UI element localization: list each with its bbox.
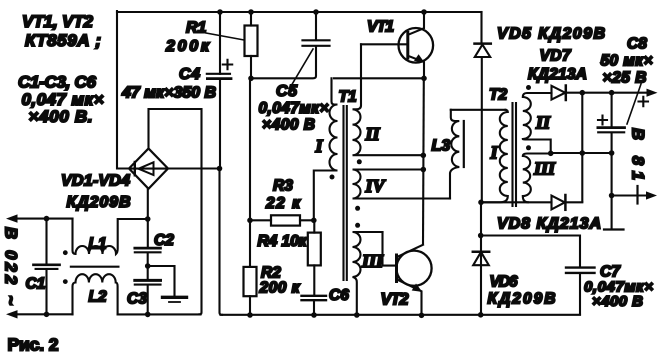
wire bridge top AC corner up over box and down to bottom rail [149, 109, 202, 314]
node VT2 emitter rail [419, 313, 425, 319]
node C6 bottom rail [311, 312, 317, 318]
svg-text:L2: L2 [89, 289, 107, 306]
node VD6 bottom rail [478, 312, 484, 318]
wire R1 column down to R3 junction and R2 [249, 78, 251, 220]
svg-text:47 мк×350 В: 47 мк×350 В [121, 85, 216, 102]
wire L3 top to T2 primary top [451, 109, 506, 111]
node C7 branch junction [478, 233, 484, 239]
capacitor C6 [302, 296, 327, 315]
T1 polarity dot winding IV [355, 206, 360, 211]
diode VD6 [473, 252, 489, 266]
node AC/C2 junction [145, 216, 151, 222]
input arrow bottom [6, 310, 18, 318]
resistor R4 [308, 220, 321, 295]
bridge rectifier VD1-VD4 diamond [129, 149, 168, 189]
svg-text:С4: С4 [179, 66, 200, 83]
resistor R3 [250, 215, 314, 225]
node top rail junction C4 [217, 9, 223, 15]
T1 winding III [353, 232, 383, 315]
T1 winding IV [353, 170, 450, 199]
capacitor C4 electrolytic [207, 12, 232, 315]
transformer T1 [314, 44, 450, 315]
svg-text:С6: С6 [329, 287, 349, 304]
node top rail junction VT1 collector [421, 9, 427, 15]
wire minus column [611, 153, 613, 229]
node C1 bottom [44, 312, 50, 318]
svg-text:III: III [361, 251, 384, 271]
wire down to R2 [249, 220, 251, 267]
output arrow minus [612, 186, 657, 204]
svg-text:С2: С2 [154, 232, 174, 249]
input arrow top [6, 214, 73, 222]
wire left vertical from top rail to bridge [117, 11, 129, 169]
svg-text:С1: С1 [26, 276, 46, 293]
label C5 with leader [276, 49, 313, 100]
node VD8 line left junction [478, 200, 484, 206]
svg-text:Т2: Т2 [489, 87, 507, 104]
node center tap [548, 151, 554, 157]
capacitor C1 [34, 219, 60, 315]
output plus sign [639, 97, 649, 106]
inductor L1 [63, 219, 148, 256]
inductor L3 [450, 110, 464, 199]
node C8 bottom junction [609, 150, 615, 156]
T2 winding II [523, 93, 552, 154]
node junction C4 bottom / bridge [217, 166, 223, 172]
capacitor C2 [135, 248, 161, 280]
wire T1 winding I top to VT1 emitter [334, 77, 424, 79]
node midpoint junction T1-IV top [421, 167, 427, 173]
T1 polarity dot winding II [357, 159, 362, 164]
node C8 top junction [609, 90, 615, 96]
node R1 bottom junction [248, 76, 254, 82]
svg-text:×400 В: ×400 В [262, 117, 315, 134]
label C8 with leader [627, 36, 647, 125]
T1 winding I [314, 78, 338, 220]
node midpoint junction T1-II bottom [421, 153, 427, 159]
wire bridge + corner to C4 column [168, 167, 220, 169]
svg-text:Рис. 2: Рис. 2 [8, 335, 59, 355]
T1 winding II [353, 44, 424, 155]
T1 polarity dot winding I [330, 175, 335, 180]
wire VD6 column [480, 202, 482, 314]
wire T1 winding IV bottom to L3 [448, 197, 451, 199]
svg-text:КД209В: КД209В [67, 194, 131, 211]
node R3 right junction [311, 218, 317, 224]
svg-text:R4 10к: R4 10к [258, 233, 308, 250]
wire bridge bottom corner to AC node [147, 189, 149, 248]
node minus output junction [609, 193, 615, 199]
T1 polarity dot winding III [355, 223, 360, 228]
svg-text:0,047мк×: 0,047мк× [259, 100, 329, 117]
svg-text:200 к: 200 к [259, 280, 301, 297]
node VD7 cathode junction [580, 90, 586, 96]
svg-text:II: II [535, 113, 551, 133]
svg-text:С8: С8 [627, 36, 647, 53]
svg-text:С1-С3, С6: С1-С3, С6 [18, 73, 97, 92]
bottom rail [13, 313, 580, 316]
inductor L2 [63, 274, 118, 314]
T2 core [513, 103, 517, 206]
transformer T2 [481, 85, 552, 206]
svg-text:С3: С3 [127, 291, 147, 308]
node C1 top [44, 216, 50, 222]
ground symbol [148, 266, 187, 302]
transistor VT2 [396, 245, 431, 315]
svg-text:III: III [533, 159, 556, 179]
svg-text:КД213А: КД213А [528, 66, 587, 83]
node T1 winding III bottom rail [354, 312, 360, 318]
wire half-bridge midpoint vertical [422, 78, 425, 244]
svg-text:VD6: VD6 [490, 274, 518, 291]
svg-text:VT1, VT2: VT1, VT2 [22, 12, 94, 31]
svg-text:22 к: 22 к [265, 195, 301, 212]
svg-text:L3: L3 [432, 138, 451, 155]
svg-text:Т1: Т1 [339, 89, 357, 106]
svg-text:R1: R1 [186, 20, 207, 37]
diode VD8 [552, 195, 566, 210]
T2 winding I primary [481, 110, 508, 203]
wire center tap line [551, 152, 612, 154]
resistor R1 [245, 12, 258, 78]
svg-text:R3: R3 [273, 178, 293, 195]
capacitor C7 [481, 236, 595, 315]
svg-text:VD7: VD7 [540, 48, 572, 65]
T2 polarity dot winding III [526, 145, 531, 150]
svg-text:IV: IV [365, 176, 387, 196]
node top rail junction R1 [248, 9, 254, 15]
T1 winding III wire to VT2 base [383, 232, 397, 266]
svg-text:VD1-VD4: VD1-VD4 [61, 173, 130, 190]
svg-text:I: I [315, 136, 324, 156]
label R1 with leader [186, 20, 244, 41]
svg-text:С5: С5 [276, 83, 298, 100]
svg-text:I: I [490, 143, 499, 163]
output arrow plus [647, 89, 658, 97]
T1 core [344, 106, 347, 280]
svg-text:VT1: VT1 [367, 19, 394, 36]
node C2/C3 junction [145, 263, 151, 269]
T2 polarity dot winding II [526, 85, 531, 90]
wire top rail +310V [117, 11, 482, 13]
minus column end bar [604, 228, 624, 230]
node top rail junction C5 [313, 9, 319, 15]
svg-text:×400 В: ×400 В [592, 293, 643, 310]
resistor R2 [244, 267, 257, 315]
capacitor C3 [135, 280, 161, 314]
wire VD8 line [481, 201, 582, 203]
diode VD5 [475, 12, 491, 202]
node R3 left junction [247, 218, 253, 224]
svg-text:VT2: VT2 [381, 291, 409, 309]
capacitor C5 [251, 12, 330, 78]
core L1/L2 [71, 266, 119, 268]
svg-text:50 мк×: 50 мк× [601, 53, 653, 70]
svg-text:L1: L1 [89, 236, 107, 253]
diode VD7 [552, 86, 649, 101]
svg-text:II: II [365, 124, 381, 144]
wire VD7 junction vertical [581, 93, 583, 202]
node R2 bottom rail [247, 312, 253, 318]
T2 winding III [523, 154, 551, 203]
node center tap line junction [580, 150, 586, 156]
svg-text:×25 В: ×25 В [603, 70, 647, 87]
capacitor C8 electrolytic [598, 93, 625, 153]
svg-text:КТ859А ;: КТ859А ; [25, 31, 101, 50]
transistor VT1 [361, 12, 433, 78]
svg-text:VD5 КД209В: VD5 КД209В [497, 26, 605, 43]
node VT1 emitter junction [421, 76, 427, 82]
svg-text:VD8 КД213А: VD8 КД213А [497, 216, 601, 233]
node C3 bottom rail [145, 312, 151, 318]
svg-text:×400 В.: ×400 В. [29, 107, 93, 126]
